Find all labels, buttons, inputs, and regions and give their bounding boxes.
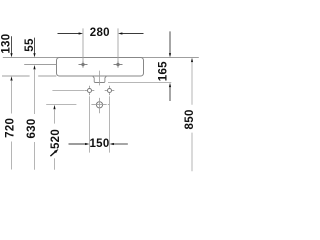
basin bottom extension line (left, gap at 630 line)	[2, 75, 30, 77]
tap hole cross right	[114, 61, 123, 67]
drain overflow box below basin	[93, 76, 107, 82]
dim 630/55 up arrow below tap line	[33, 65, 35, 69]
svg-text:520: 520	[50, 129, 62, 149]
dim 150 ext line right (from mount hole R)	[109, 96, 111, 152]
dim 630 line upper segment	[34, 69, 36, 114]
svg-text:720: 720	[5, 118, 17, 138]
svg-text:850: 850	[184, 109, 196, 129]
dim 150 ext line left (from mount hole L)	[89, 96, 91, 152]
dim 150 right arrow	[110, 143, 128, 145]
drain hole circle	[96, 102, 102, 108]
basin outline	[57, 58, 144, 77]
svg-text:165: 165	[158, 61, 170, 81]
dim 850 up arrow at rim	[191, 58, 193, 62]
svg-text:130: 130	[0, 34, 12, 54]
dim 280 left arrow	[58, 32, 84, 34]
svg-text:55: 55	[24, 38, 36, 52]
mounting hole right	[105, 86, 115, 96]
rim extension line (top reference, full width)	[3, 57, 199, 59]
drain level stub line	[46, 104, 76, 106]
dim 520 line upper segment	[54, 109, 56, 124]
dim 165 lower up arrow and tail	[169, 83, 171, 101]
svg-text:280: 280	[90, 27, 110, 39]
dim 280 ext line right (from tap cross R up)	[117, 28, 119, 61]
tap hole cross left	[79, 61, 88, 67]
dim 280 ext line left (from tap cross L up)	[82, 28, 84, 61]
dim 520 up arrow at drain level	[53, 105, 55, 109]
tap level extension line (left)	[24, 64, 56, 66]
dim 520 diagonal continuation arrow	[50, 149, 58, 156]
drain hole vertical centerline	[99, 98, 101, 113]
dim 150 left arrow	[69, 143, 90, 145]
dim 520 line lower segment	[54, 158, 56, 170]
dim 130 line with down arrow (at rim)	[10, 36, 12, 57]
dim 720/130 up arrow below basin bottom line	[10, 76, 12, 80]
svg-text:150: 150	[89, 138, 109, 150]
dim 165 upper line with down arrow	[169, 31, 171, 57]
dim 55 line with down arrow (at rim)	[33, 38, 35, 58]
dim 720 line lower segment	[11, 142, 13, 170]
drain hole horizontal centerline	[91, 104, 106, 106]
dim 850 line lower segment	[191, 133, 193, 172]
dim 720 line upper segment	[11, 80, 13, 113]
dim 280 right arrow	[118, 32, 144, 34]
dim 630 line lower segment	[34, 142, 36, 170]
dim 850 line upper segment	[191, 62, 193, 105]
mounting hole left	[85, 86, 95, 96]
overflow bottom extension line (to 165)	[108, 82, 171, 84]
svg-text:630: 630	[26, 118, 38, 138]
drain axis centerline through box	[99, 71, 101, 86]
mounting holes level stub line	[52, 90, 84, 92]
